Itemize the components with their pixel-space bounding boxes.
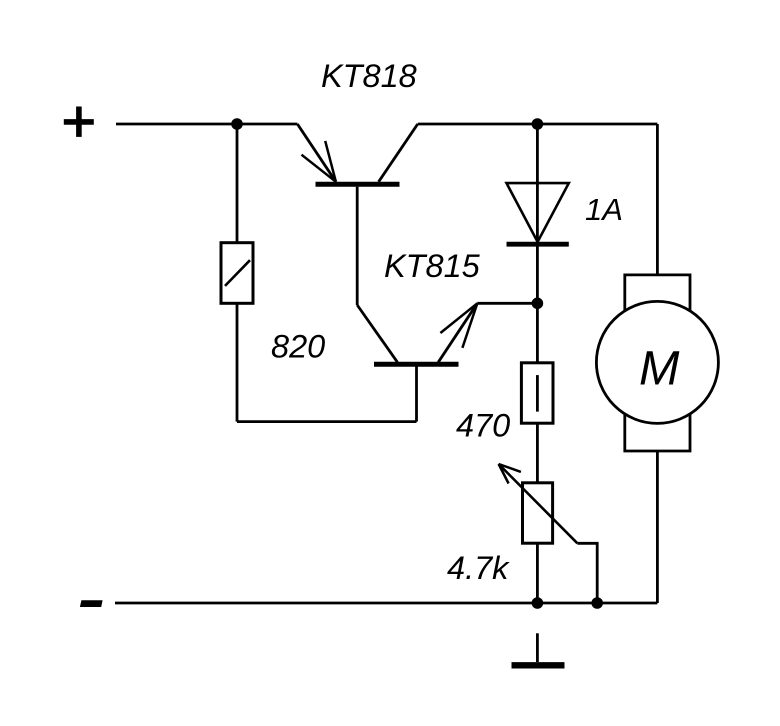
node B junction [532, 298, 544, 310]
wire R1 bottom down [236, 303, 239, 421]
wire bottom rail left [115, 602, 537, 605]
wire top rail node C to motor [537, 123, 657, 126]
resistor R1 820 [221, 243, 253, 304]
potentiometer R3 4.7k [499, 464, 578, 543]
wire wiper to bottom rail [577, 543, 597, 603]
plus terminal [64, 107, 94, 137]
wire bottom of R1 to Q2 base [237, 420, 417, 423]
wire pot bottom to bottom rail [536, 543, 539, 603]
svg-text:KT815: KT815 [384, 248, 481, 284]
node A junction [231, 118, 243, 130]
svg-text:820: 820 [271, 328, 325, 364]
svg-text:470: 470 [456, 407, 510, 443]
node D junction [532, 597, 544, 609]
svg-text:KT818: KT818 [321, 58, 417, 94]
transistor Q1 KT818 [297, 124, 417, 184]
wire bottom rail to motor [597, 602, 657, 605]
wire Q2 emitter to node B [477, 302, 537, 305]
wire diode to node B [536, 244, 539, 303]
wire motor top lead [656, 124, 659, 275]
motor M1 [596, 275, 718, 451]
svg-text:1A: 1A [585, 192, 623, 227]
wire Q1 base to Q2 collector [356, 187, 359, 305]
resistor R2 470 [521, 363, 553, 423]
minus terminal [80, 600, 103, 607]
transistor Q2 KT815 [357, 303, 477, 364]
svg-text:M: M [639, 341, 680, 395]
wire bottom rail between nodes [537, 602, 597, 605]
wire node A to KT818 emitter [237, 123, 297, 126]
wire node C down to diode [536, 124, 539, 183]
svg-text:4.7k: 4.7k [447, 550, 510, 586]
wire top rail Q1 collector to node C [418, 123, 538, 126]
wire + rail left to node A [116, 123, 237, 126]
wire R2 to potentiometer [536, 423, 539, 483]
wire motor bottom lead [656, 451, 659, 603]
node E junction [591, 597, 603, 609]
node C junction [532, 118, 544, 130]
wire Q2 base lead [415, 364, 418, 421]
ground [512, 633, 565, 665]
wire node B to R2 [536, 303, 539, 363]
wire node A down to R1 [236, 124, 239, 243]
diode D1 [507, 183, 569, 244]
